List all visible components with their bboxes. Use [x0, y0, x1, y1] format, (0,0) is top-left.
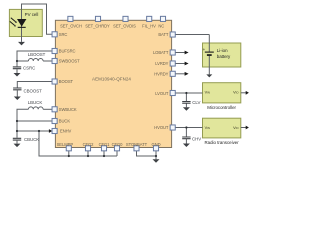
svg-text:LVOUT: LVOUT — [155, 91, 169, 96]
svg-text:VIO: VIO — [233, 91, 239, 95]
svg-text:NC: NC — [158, 24, 164, 29]
svg-text:CBOOST: CBOOST — [24, 89, 43, 94]
svg-text:SET_CHRDY: SET_CHRDY — [85, 24, 110, 29]
svg-text:BUFSRC: BUFSRC — [59, 49, 76, 54]
svg-text:AEM10940-QFN24: AEM10940-QFN24 — [92, 77, 131, 82]
svg-text:GND: GND — [151, 142, 160, 147]
svg-text:CFG2: CFG2 — [83, 142, 95, 147]
svg-text:FIL_HV: FIL_HV — [142, 24, 156, 29]
svg-text:CBUCK: CBUCK — [24, 137, 39, 142]
svg-text:CFG1: CFG1 — [99, 142, 111, 147]
svg-text:LOBATT: LOBATT — [153, 50, 169, 55]
svg-text:LBUCK: LBUCK — [28, 100, 43, 105]
svg-text:SWBOOST: SWBOOST — [59, 59, 80, 64]
svg-text:SRC: SRC — [59, 32, 68, 37]
svg-text:HVRDY: HVRDY — [154, 71, 168, 76]
svg-text:CHV: CHV — [192, 136, 201, 141]
svg-text:SET_OVCH: SET_OVCH — [60, 24, 82, 29]
svg-text:battery: battery — [217, 54, 231, 59]
svg-text:BATT: BATT — [158, 32, 169, 37]
svg-text:BOOST: BOOST — [59, 79, 74, 84]
svg-text:LVRDY: LVRDY — [155, 61, 168, 66]
svg-text:BUCK: BUCK — [59, 119, 71, 124]
svg-text:CSRC: CSRC — [23, 66, 35, 71]
svg-text:SELMPP: SELMPP — [57, 142, 74, 147]
svg-text:VIN: VIN — [205, 91, 210, 95]
svg-text:HVOUT: HVOUT — [154, 125, 169, 130]
svg-text:Radio transceiver: Radio transceiver — [205, 140, 240, 145]
svg-text:Microcontroller: Microcontroller — [207, 105, 236, 110]
svg-text:VIO: VIO — [233, 126, 239, 130]
svg-text:STONBATT: STONBATT — [126, 142, 148, 147]
svg-text:+: + — [203, 47, 206, 52]
svg-text:CFG0: CFG0 — [112, 142, 124, 147]
svg-text:ENHV: ENHV — [60, 129, 72, 134]
svg-text:VIN: VIN — [205, 126, 210, 130]
svg-text:CLV: CLV — [192, 100, 200, 105]
svg-text:SWBUCK: SWBUCK — [59, 107, 77, 112]
svg-text:SET_OVDIS: SET_OVDIS — [113, 24, 136, 29]
svg-text:Li-ion: Li-ion — [217, 48, 228, 53]
svg-text:LBOOST: LBOOST — [28, 52, 46, 57]
svg-text:PV cell: PV cell — [25, 12, 39, 17]
